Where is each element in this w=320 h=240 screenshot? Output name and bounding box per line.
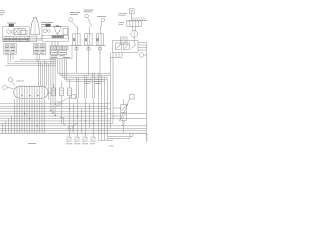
pump group P1 enclosure [3, 27, 29, 42]
wire fan f4 [64, 59, 108, 80]
cylinder C2 fitting [87, 48, 90, 50]
relief valve RV1 arrow 1 [122, 106, 126, 111]
valve V1b [124, 43, 130, 50]
coil box CL1 [67, 137, 71, 141]
leader from N2 [88, 17, 92, 26]
cylinder C3 base [95, 44, 106, 46]
wire grid h12 [0, 130, 147, 132]
channel K1 dark band [3, 38, 29, 40]
wire feeder h3 [8, 63, 56, 65]
motor M3 fins [130, 21, 139, 27]
wire fan f3 [62, 59, 108, 78]
table T1 text [5, 45, 15, 53]
wire drop right c [104, 77, 106, 140]
valve V1 drop collector [111, 57, 123, 59]
wire M3 to pump [132, 27, 134, 31]
motor M2 [63, 28, 68, 34]
cylinder C2 band [85, 38, 88, 41]
manifold drop 6 [26, 99, 28, 133]
relay RB1 text [52, 47, 56, 49]
gauge G3 [43, 29, 47, 33]
wire grid h4 [0, 110, 105, 112]
balloon N3 [56, 102, 60, 106]
wire bottom bus [0, 132, 147, 134]
wire right riser [146, 43, 148, 131]
label text above N1 [70, 13, 80, 15]
wire drop right d [107, 79, 109, 140]
pump group P2 enclosure [42, 27, 68, 42]
breather B1 stem [34, 21, 36, 35]
junction dots [24, 103, 94, 126]
solenoid valve S1 [59, 81, 63, 98]
wire group link 2 [29, 39, 42, 41]
table T1 drop 1 [7, 54, 9, 63]
left stub 2 [5, 121, 7, 133]
wire bundle v9 [54, 59, 56, 116]
text table T2 box [33, 44, 45, 55]
corner note text [109, 145, 114, 147]
leader N4 [12, 81, 15, 86]
leader from N1 [72, 21, 77, 28]
manifold drop 4 [21, 99, 23, 133]
relay box RB1 [51, 46, 56, 50]
relay box RB5 [59, 51, 67, 55]
wire drop right b [101, 75, 103, 140]
group P1 inner rect [21, 31, 28, 35]
motor M1 [14, 28, 25, 34]
mount line [127, 20, 148, 22]
label text left b [119, 23, 125, 25]
wire RV1 left 2 [111, 115, 121, 117]
wire V1 right 4 [138, 49, 147, 51]
pump PU2 leader [73, 123, 78, 127]
balloon N3 dot [57, 103, 58, 104]
strainer S2 stem [56, 33, 58, 35]
wire RV1 left 1 [113, 107, 121, 109]
wire drop d2 [69, 98, 71, 137]
central block text [51, 56, 70, 58]
wire drop right a [98, 73, 100, 140]
breather B1 bell [31, 18, 39, 35]
wire RV1 up [123, 99, 125, 105]
leader N3 [59, 97, 71, 103]
relay box RB3 [63, 46, 68, 50]
wire grid h11 [0, 127, 147, 129]
wire group link 1 [29, 37, 42, 39]
wire TB1 down [131, 14, 133, 21]
valve V1a [116, 43, 122, 50]
manifold label text [16, 80, 24, 82]
label text left a [119, 13, 128, 15]
pump PU1 divider [133, 31, 135, 38]
wire grid h2 [0, 105, 108, 107]
cylinder C1 drain [76, 45, 78, 73]
wire bundle v8 [52, 59, 54, 113]
manifold drop 12 [41, 99, 43, 133]
manifold ports [17, 86, 45, 98]
bottom note text [28, 142, 36, 144]
table T2 drop 1 [36, 54, 38, 61]
left stub 4 [11, 116, 13, 133]
valve V1 drop b [118, 53, 120, 58]
wire grid h7 [0, 118, 147, 120]
cylinder C3 band [96, 38, 99, 41]
wire PU1 down [133, 37, 135, 44]
motor M1 fins [19, 28, 22, 34]
wire grid h10 [0, 125, 147, 127]
pump group P1 label [7, 22, 16, 24]
label text above N2 [84, 10, 94, 12]
wire grid h3 [0, 108, 111, 110]
balloon N4 [9, 78, 13, 82]
manifold drop 10 [36, 99, 38, 133]
manifold outlet [48, 92, 51, 94]
wire M3 to pump b [135, 27, 137, 31]
tank label text [41, 23, 53, 25]
balloon N1 [69, 18, 73, 22]
label text above N3t [97, 15, 106, 17]
group P2 drop a [51, 41, 53, 46]
relief valve RV1 spring [122, 121, 125, 127]
relay box RB4 [51, 51, 58, 55]
wire jog [60, 118, 65, 125]
group P2 drop b [54, 41, 56, 46]
wire drop d5 [93, 99, 95, 137]
relief valve RV1 body [121, 105, 127, 121]
valve V1 drop c [121, 53, 123, 58]
cylinder C1 base [71, 44, 82, 46]
valve block V1 riser 1 [110, 53, 112, 129]
table T1 drop 3 [12, 54, 14, 59]
valve block V1 [113, 41, 139, 53]
wire RV1 down [123, 126, 125, 133]
gauge G4 [48, 30, 51, 33]
wire drop m3 [89, 104, 91, 129]
manifold drop 8 [31, 99, 33, 133]
cylinder C1 body [73, 34, 80, 45]
cylinder C2 rod [88, 27, 90, 35]
motor M3 [127, 21, 142, 27]
cylinder C2 body [85, 34, 92, 45]
coil box CL2 [75, 137, 79, 141]
pump PU2 mark [70, 128, 71, 129]
relay box RB2 [57, 46, 62, 50]
wire V1 right 1 [138, 42, 147, 44]
manifold drop 5 [24, 99, 26, 133]
table T2 row lines [33, 46, 45, 51]
valve V1b arrow [125, 44, 129, 49]
wire collector y140 [99, 139, 114, 141]
central block CB enclosure [50, 46, 72, 59]
cylinder C1 piston [75, 34, 77, 45]
cylinder C2 base [83, 44, 94, 46]
pump PU2 [68, 126, 73, 131]
tag box TB3 [130, 95, 135, 100]
cylinder C2 piston [87, 34, 89, 45]
aux motor M4 box [120, 37, 127, 44]
relay RB4 text [52, 52, 57, 54]
channel K2 dark band [52, 35, 64, 38]
cylinder C2 drain [88, 45, 90, 75]
wire return row B [108, 133, 130, 138]
hose pair S3 [76, 77, 79, 99]
table T2 drop 2 [39, 54, 41, 59]
gauge G5 [139, 53, 144, 58]
wire fan f1 [58, 59, 111, 74]
relief valve RV1 arrow 2 [122, 114, 126, 119]
right comb stem [146, 131, 148, 142]
wire drop d4 [85, 99, 87, 137]
tag TB1 dot [131, 10, 133, 12]
notes text [0, 11, 5, 15]
mount hatch [131, 17, 145, 21]
wire drop d1 [61, 98, 63, 123]
channel K2 [42, 35, 68, 38]
strainer S2 funnel [54, 26, 62, 33]
valve V1a arrow [117, 44, 121, 49]
wire feeder h1 [20, 59, 56, 61]
solenoid valve S2 [67, 79, 71, 98]
wire bundle v6 [48, 64, 50, 100]
cylinder C1 band [73, 38, 76, 41]
wire G5 right [144, 54, 147, 56]
wire bundle v1 [37, 60, 39, 87]
coil box CL3 [83, 137, 87, 141]
wire feeder h2 [14, 61, 56, 63]
wire feeder h4 [5, 65, 56, 67]
wire fan f5 [67, 59, 106, 82]
manifold drop 3 [19, 99, 21, 133]
text table T1 box [4, 44, 16, 55]
coil box marks [68, 138, 95, 141]
table T2 text [34, 45, 44, 53]
wire bundle v2 [39, 62, 41, 87]
gauge G1 [7, 30, 11, 34]
aux motor M4 [122, 39, 126, 43]
leader RV1 to TB3 [126, 99, 129, 106]
coil labels [66, 143, 95, 145]
wire grid h5 [0, 113, 147, 115]
leader from N3t [101, 22, 102, 28]
manifold drop 13 [44, 99, 46, 133]
wire bundle v4 [44, 60, 46, 87]
wire bundle v5 [46, 62, 48, 87]
wire grid h1 [0, 103, 111, 105]
solenoid valve S0 [51, 84, 55, 96]
wire drop m2 [81, 109, 83, 134]
relay RB2 text [58, 47, 62, 49]
left stub 3 [8, 119, 10, 134]
hose pair S5 [92, 73, 95, 99]
gauge G2 [11, 31, 14, 34]
valve V1c arrow [132, 44, 137, 49]
relief valve RV1 long arrow [119, 104, 128, 121]
tag box TB1 [129, 9, 134, 14]
cylinder C1 rod [76, 27, 78, 35]
relay RB3 text [64, 47, 68, 49]
manifold drop 2 [16, 99, 18, 133]
table T1 row lines [4, 46, 16, 51]
hose pair S4 [84, 75, 87, 99]
wire V1 right 3 [138, 47, 147, 49]
wire grid h9 [0, 122, 113, 124]
strainer S2 cap [56, 25, 59, 27]
channel K1 internals [6, 36, 28, 41]
manifold channel K1 [3, 36, 37, 41]
tag box TB2 [72, 95, 76, 99]
valve block V1 riser 2 [112, 53, 114, 124]
wire drop d3 [77, 99, 79, 137]
wire grid h8 [0, 120, 111, 122]
wire grid h6 [0, 115, 108, 117]
manifold drop 1 [14, 99, 16, 133]
valve V1 drop a [115, 53, 117, 58]
balloon N2 [85, 14, 89, 18]
cylinder C3 rod [100, 27, 102, 35]
coil box CL4 [91, 137, 95, 141]
relay RB5 text [59, 52, 65, 54]
wire fan f2 [60, 59, 111, 76]
cylinder C3 piston [99, 34, 101, 45]
manifold drop 7 [29, 99, 31, 133]
wire G6 [7, 88, 14, 89]
right comb ticks [146, 135, 148, 140]
solenoid labels [84, 80, 103, 84]
motor M1 X mark [14, 29, 19, 35]
group P2 drop c [57, 41, 59, 46]
wire bundle v3 [42, 64, 44, 87]
balloon N3t [101, 18, 105, 22]
cylinder C3 fitting [99, 48, 102, 50]
filter F1 [9, 24, 14, 27]
filter F2 [46, 24, 51, 27]
manifold dots [21, 95, 38, 96]
table T1 drop 2 [10, 54, 12, 61]
gauge G6 [3, 85, 7, 89]
wire return row A [108, 133, 133, 136]
manifold drop 9 [34, 99, 36, 133]
pump PU1 [131, 31, 138, 38]
manifold MF [14, 86, 48, 98]
cylinder C3 drain [99, 45, 101, 77]
relief valve RV1 divider [121, 112, 127, 114]
cylinder C1 fitting [75, 48, 78, 50]
left stub 1 [2, 123, 4, 133]
channel K2 ticks [53, 35, 63, 38]
wire drop m1 [73, 104, 75, 133]
wire bundle v7 [50, 59, 52, 111]
wire V1 right 2 [138, 44, 147, 46]
cylinder C3 body [96, 34, 103, 45]
manifold drop 11 [39, 99, 41, 133]
